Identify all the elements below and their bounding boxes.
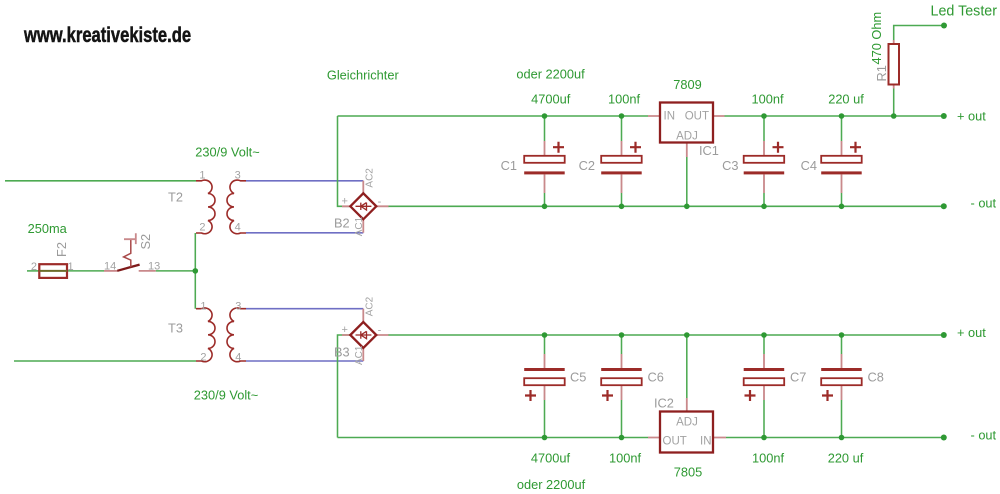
svg-text:C7: C7 (790, 370, 806, 385)
svg-text:AC2: AC2 (364, 296, 375, 316)
wire C8 top lead (841, 335, 843, 354)
svg-text:100nf: 100nf (751, 92, 783, 107)
svg-text:T3: T3 (168, 321, 183, 336)
wire R1 top to Led Tester (894, 26, 944, 41)
pin S2 14 (104, 261, 116, 273)
svg-text:1: 1 (199, 170, 205, 182)
svg-text:oder 2200uf: oder 2200uf (517, 477, 586, 492)
capacitor C3 (744, 141, 785, 193)
capacitor C4 (821, 141, 862, 193)
wire C4 top lead (841, 116, 843, 141)
wire mains bottom line to T3 pin2 (14, 360, 196, 362)
node -out top end (941, 203, 947, 209)
wire blue T3 sec pin3 to B3 AC2 (246, 308, 363, 310)
pin B2 minus (378, 196, 382, 208)
pin T3 2 (200, 352, 206, 364)
node IC1 ADJ (684, 204, 690, 210)
node C6 bottom (619, 435, 625, 441)
wire blue T2 sec pin4 to B2 AC1 (246, 232, 363, 234)
node C8 bottom (839, 435, 845, 441)
svg-text:7809: 7809 (673, 77, 701, 92)
pin T2 4 (235, 222, 241, 234)
svg-text:+: + (341, 324, 347, 336)
bridge rectifier B3 (342, 309, 389, 361)
svg-text:IC2: IC2 (654, 396, 674, 411)
voltage regulator IC2 7805 (648, 398, 726, 453)
pin B3 minus (378, 325, 382, 337)
svg-text:14: 14 (104, 261, 116, 273)
node C4 top (839, 113, 845, 119)
pin T3 1 (200, 301, 206, 313)
node +out top end (941, 113, 947, 119)
title www.kreativekiste.de (23, 24, 191, 47)
capacitor C2 (601, 141, 642, 193)
wire mains top line to T2 pin1 (5, 180, 196, 182)
svg-text:ADJ: ADJ (676, 417, 698, 429)
node C1 top (542, 113, 548, 119)
svg-text:- out: - out (971, 196, 997, 211)
svg-text:+ out: + out (957, 109, 986, 124)
svg-text:470 Ohm: 470 Ohm (869, 12, 884, 65)
wire B2 minus rail to -out (388, 205, 944, 207)
svg-text:1: 1 (68, 261, 74, 273)
svg-text:T2: T2 (168, 190, 183, 205)
capacitor C8 (821, 354, 862, 401)
name IC2 (654, 396, 674, 411)
wire bottom -out rail left of IC2 (338, 437, 649, 439)
svg-text:230/9 Volt~: 230/9 Volt~ (195, 145, 259, 160)
wire C3 bottom lead (763, 193, 765, 206)
voltage regulator IC1 7809 (648, 103, 725, 158)
svg-text:4700uf: 4700uf (531, 451, 571, 466)
svg-text:C8: C8 (868, 370, 884, 385)
node C2 bottom (619, 204, 625, 210)
capacitor C7 (744, 354, 785, 401)
svg-text:C2: C2 (579, 158, 595, 173)
wire C4 bottom lead (841, 193, 843, 206)
svg-text:Gleichrichter: Gleichrichter (327, 68, 400, 83)
name C1 (501, 158, 517, 173)
svg-text:4: 4 (235, 352, 241, 364)
wire B3 plus down to -out rail (338, 335, 351, 438)
svg-text:oder 2200uf: oder 2200uf (516, 67, 585, 82)
node R1 bottom (891, 113, 897, 119)
svg-text:OUT: OUT (663, 436, 687, 448)
name C6 (648, 370, 664, 385)
node C6 top (619, 332, 625, 338)
wire bottom -out rail right of IC2 (726, 437, 944, 439)
svg-text:2: 2 (31, 261, 37, 273)
name B3 (334, 345, 350, 360)
wire fuse to switch (67, 270, 104, 272)
wire R1 bottom lead to rail (893, 89, 895, 117)
svg-text:C1: C1 (501, 158, 517, 173)
label 250ma (28, 221, 68, 236)
capacitor C6 (601, 354, 642, 401)
name F2 (54, 242, 69, 257)
pin B2 AC1 (354, 216, 365, 236)
label - out top (971, 196, 997, 211)
svg-text:F2: F2 (54, 242, 69, 257)
svg-text:S2: S2 (138, 234, 153, 250)
wire C8 bottom lead (841, 400, 843, 438)
svg-text:100nf: 100nf (752, 451, 784, 466)
pin B3 AC2 (364, 296, 375, 316)
svg-text:IC1: IC1 (699, 143, 719, 158)
node Led Tester end (941, 23, 947, 29)
svg-text:C4: C4 (801, 158, 817, 173)
switch S2 (104, 233, 156, 271)
name IC1 (699, 143, 719, 158)
svg-text:Led Tester: Led Tester (931, 4, 998, 20)
svg-text:OUT: OUT (685, 111, 709, 123)
value C8 220 uf (828, 451, 864, 466)
label + out bottom (957, 325, 986, 340)
svg-text:B3: B3 (334, 345, 350, 360)
pin B2 AC2 (364, 168, 375, 188)
svg-text:2: 2 (199, 222, 205, 234)
value C7 100nf (752, 451, 784, 466)
value IC1 7809 (673, 77, 701, 92)
wire C5 top lead (544, 335, 546, 354)
wire C6 bottom lead (621, 400, 623, 438)
label 230/9 Volt~ top (195, 145, 259, 160)
label Led Tester (931, 4, 998, 20)
value C2 100nf (608, 92, 640, 107)
name R1 (874, 65, 889, 81)
svg-text:100nf: 100nf (609, 451, 641, 466)
pin F2 1 (68, 261, 74, 273)
wire C7 bottom lead (763, 400, 765, 438)
value IC2 7805 (674, 465, 702, 480)
node C8 top (839, 332, 845, 338)
svg-text:- out: - out (971, 428, 997, 443)
svg-text:220 uf: 220 uf (828, 92, 864, 107)
value C6 100nf (609, 451, 641, 466)
fuse F2 (39, 264, 67, 278)
node C5 bottom (542, 435, 548, 441)
svg-text:7805: 7805 (674, 465, 702, 480)
name B2 (334, 216, 350, 231)
svg-text:IN: IN (700, 436, 712, 448)
svg-text:250ma: 250ma (28, 221, 68, 236)
name C5 (570, 370, 586, 385)
node -out bottom end (941, 435, 947, 441)
value C3 100nf (751, 92, 783, 107)
label 230/9 Volt~ bottom (194, 388, 258, 403)
name T2 (168, 190, 183, 205)
pin T3 4 (235, 352, 241, 364)
pin F2 2 (31, 261, 37, 273)
node +out bottom end (941, 332, 947, 338)
bridge rectifier B2 (342, 181, 389, 233)
name T3 (168, 321, 183, 336)
pin B3 plus (341, 324, 347, 336)
wire C1 bottom lead (544, 193, 546, 206)
name C3 (722, 158, 738, 173)
node C7 bottom (761, 435, 767, 441)
name C8 (868, 370, 884, 385)
wire C3 top lead (763, 116, 765, 141)
svg-text:2: 2 (200, 352, 206, 364)
label oder 2200uf top (516, 67, 585, 82)
pin T3 3 (235, 301, 241, 313)
pin S2 13 (148, 261, 160, 273)
node C3 top (761, 113, 767, 119)
svg-text:C5: C5 (570, 370, 586, 385)
pin T2 3 (235, 170, 241, 182)
wire blue T2 sec pin3 to B2 AC2 (246, 180, 363, 182)
pin B3 AC1 (354, 345, 365, 365)
value R1 470 Ohm (869, 12, 884, 65)
wire C1 top lead (544, 116, 546, 141)
wire B2 plus up to +9V rail (338, 116, 351, 206)
name C4 (801, 158, 817, 173)
svg-text:B2: B2 (334, 216, 350, 231)
svg-text:1: 1 (200, 301, 206, 313)
node C7 top (761, 332, 767, 338)
transformer T3 (196, 308, 246, 362)
svg-text:ADJ: ADJ (676, 131, 698, 143)
wire blue T3 sec pin4 to B3 AC1 (246, 360, 363, 362)
svg-text:+: + (341, 196, 347, 208)
node C4 bottom (839, 204, 845, 210)
pin T2 1 (199, 170, 205, 182)
svg-text:3: 3 (235, 301, 241, 313)
pin B2 plus (341, 196, 347, 208)
svg-text:AC1: AC1 (354, 345, 365, 365)
svg-text:220 uf: 220 uf (828, 451, 864, 466)
wire IC1 ADJ down to rail (686, 157, 688, 206)
name C7 (790, 370, 806, 385)
label - out bottom (971, 428, 997, 443)
wire +9V rail left of IC1 (338, 115, 649, 117)
wire C7 top lead (763, 335, 765, 354)
node C2 top (619, 113, 625, 119)
svg-text:-: - (378, 196, 382, 208)
wire C2 bottom lead (621, 193, 623, 206)
name S2 (138, 234, 153, 250)
svg-text:C6: C6 (648, 370, 664, 385)
wire IC2 ADJ up to rail (686, 335, 688, 398)
node C3 bottom (761, 204, 767, 210)
wire C6 top lead (621, 335, 623, 354)
node fuse-switch junction (193, 268, 199, 274)
node C1 bottom (542, 204, 548, 210)
svg-text:www.kreativekiste.de: www.kreativekiste.de (23, 24, 191, 47)
svg-text:R1: R1 (874, 65, 889, 81)
value C5 4700uf (531, 451, 571, 466)
svg-text:3: 3 (235, 170, 241, 182)
svg-text:-: - (378, 325, 382, 337)
svg-text:AC2: AC2 (364, 168, 375, 188)
svg-text:100nf: 100nf (608, 92, 640, 107)
label Gleichrichter (327, 68, 400, 83)
resistor R1 (889, 40, 900, 89)
capacitor C5 (524, 354, 565, 401)
wire +9V rail right of IC1 (725, 115, 944, 117)
svg-text:IN: IN (664, 111, 676, 123)
label oder 2200uf bottom (517, 477, 586, 492)
svg-text:4: 4 (235, 222, 241, 234)
svg-text:C3: C3 (722, 158, 738, 173)
svg-text:+ out: + out (957, 325, 986, 340)
svg-text:230/9 Volt~: 230/9 Volt~ (194, 388, 258, 403)
value C1 4700uf (531, 92, 571, 107)
capacitor C1 (524, 141, 565, 193)
value C4 220 uf (828, 92, 864, 107)
wire B3 minus rail to +out (388, 334, 944, 336)
label + out top (957, 109, 986, 124)
node IC2 ADJ (684, 332, 690, 338)
node C5 top (542, 332, 548, 338)
wire C2 top lead (621, 116, 623, 141)
svg-text:4700uf: 4700uf (531, 92, 571, 107)
wire fuse left lead (27, 270, 40, 272)
name C2 (579, 158, 595, 173)
svg-text:13: 13 (148, 261, 160, 273)
pin T2 2 (199, 222, 205, 234)
wire C5 bottom lead (544, 400, 546, 438)
svg-text:AC1: AC1 (354, 216, 365, 236)
transformer T2 (196, 180, 246, 234)
wire switch to junction and T2 pin2 / T3 pin1 vertical (156, 233, 196, 309)
